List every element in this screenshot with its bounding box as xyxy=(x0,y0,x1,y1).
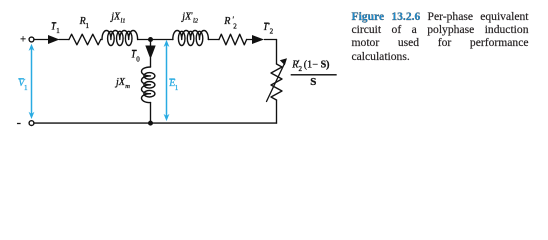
svg-text:-: - xyxy=(17,115,21,130)
svg-text:jX: jX xyxy=(109,12,121,23)
svg-text:m: m xyxy=(125,83,130,90)
svg-text:l2: l2 xyxy=(193,18,199,25)
svg-text:S): S) xyxy=(321,60,330,71)
svg-text:(1: (1 xyxy=(304,60,312,71)
svg-text:−: − xyxy=(312,60,318,71)
svg-text:jX: jX xyxy=(180,12,192,23)
svg-text:2: 2 xyxy=(270,27,274,35)
svg-text:0: 0 xyxy=(136,55,140,63)
svg-text:2: 2 xyxy=(299,65,303,73)
svg-text:S: S xyxy=(310,76,316,88)
svg-text:l1: l1 xyxy=(121,18,126,25)
svg-text:2: 2 xyxy=(233,23,237,31)
svg-text:1: 1 xyxy=(24,84,28,92)
svg-text:jX: jX xyxy=(114,77,126,88)
svg-text:1: 1 xyxy=(56,27,60,35)
svg-text:I: I xyxy=(131,50,136,61)
svg-text:R: R xyxy=(223,16,230,27)
svg-text:1: 1 xyxy=(86,22,90,30)
svg-text:1: 1 xyxy=(175,84,179,92)
svg-text:+: + xyxy=(20,34,26,45)
